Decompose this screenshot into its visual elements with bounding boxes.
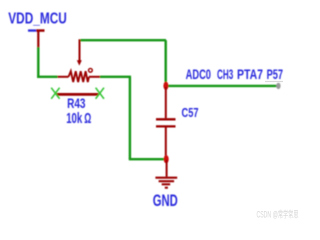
capacitor C57 bottom plate	[156, 125, 176, 127]
wire ADC horizontal	[166, 85, 279, 87]
svg-text:VDD_MCU: VDD_MCU	[8, 10, 67, 27]
wire top horizontal (wiper to junction)	[81, 39, 167, 41]
wire VDD stem green	[37, 47, 39, 78]
svg-text:PTA7: PTA7	[237, 67, 263, 82]
power port VDD_MCU bar (blue half)	[28, 29, 36, 31]
wire left horizontal to resistor	[37, 76, 57, 78]
resistor R43 left pin	[58, 76, 69, 78]
wire end gray dot	[276, 83, 280, 89]
svg-text:Ω: Ω	[84, 111, 91, 127]
capacitor C57 bottom lead	[165, 128, 167, 158]
resistor adjust degree circle	[89, 68, 93, 72]
port underline gray	[265, 81, 283, 82]
resistor R43 zigzag body	[69, 71, 89, 82]
svg-text:GND: GND	[153, 192, 178, 210]
wire right vertical down	[129, 77, 131, 159]
svg-text:C57: C57	[182, 105, 199, 120]
ground bar 3	[162, 183, 171, 185]
capacitor C57 top lead	[165, 87, 167, 118]
ground bar 1	[155, 177, 177, 179]
svg-text:R43: R43	[67, 95, 86, 111]
svg-text:10k: 10k	[66, 111, 83, 127]
wire top right vertical down	[164, 40, 166, 83]
svg-text:CSDN @常学常思: CSDN @常学常思	[257, 209, 299, 220]
wire resistor right to corner	[100, 76, 131, 78]
svg-text:CH3: CH3	[217, 67, 233, 82]
ground stem	[166, 160, 168, 177]
wire bottom horizontal to junction	[129, 158, 166, 160]
svg-text:P57: P57	[267, 67, 284, 82]
capacitor C57 top plate	[156, 118, 176, 120]
no-fit X right	[96, 88, 104, 99]
wiper arrowhead	[77, 60, 82, 65]
no-fit X left	[51, 88, 59, 99]
no-fit marker bar under R43	[56, 93, 98, 96]
junction dot bottom	[164, 155, 169, 163]
ground bar 2	[159, 180, 175, 182]
junction dot top	[163, 82, 168, 90]
power port VDD_MCU bar (red half)	[36, 29, 44, 32]
resistor R43 right pin	[89, 76, 100, 78]
wiper arrow stem	[79, 39, 81, 61]
ground bar 4	[165, 187, 168, 189]
power port stem	[37, 32, 39, 49]
svg-text:ADC0: ADC0	[186, 67, 212, 82]
